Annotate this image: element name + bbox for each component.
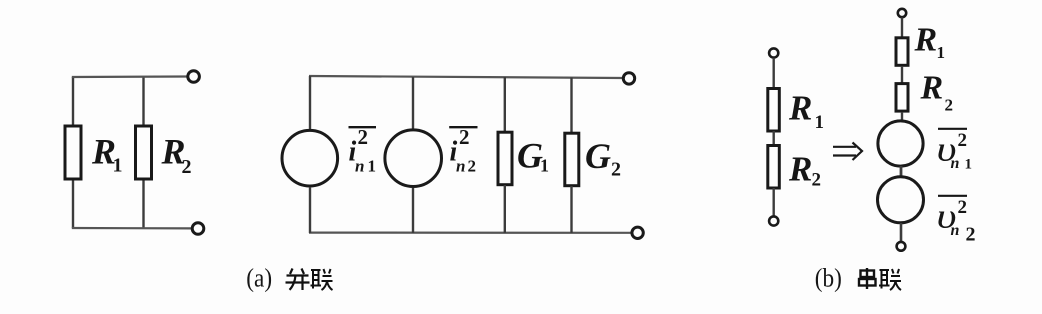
svg-text:2: 2 (966, 224, 976, 246)
terminal: bottom output (192, 223, 204, 235)
svg-text:1: 1 (965, 157, 973, 173)
svg-text:1: 1 (540, 156, 549, 176)
wire: bottom horizontal bus (309, 232, 631, 234)
caption glyph 串 (hand drawn) (859, 268, 876, 289)
resistor R2 (136, 126, 152, 179)
wire: lead to R1 (901, 17, 903, 37)
conductance G2 (resistor box) (565, 133, 579, 186)
label i_n1^2 with overbar (349, 126, 377, 128)
wire: lead to bottom terminal (773, 188, 775, 217)
label v_n1^2 with overbar (938, 128, 967, 130)
svg-text:R: R (920, 70, 944, 107)
svg-text:2: 2 (459, 125, 470, 149)
wire: between source 1 and source 2 (900, 166, 903, 177)
resistor R1 (right chain) (896, 38, 908, 66)
svg-text:2: 2 (182, 156, 192, 178)
svg-text:n: n (456, 157, 465, 176)
wire: between R2 and source 1 (901, 112, 903, 121)
caption glyph 联 (hand drawn, second) (879, 269, 901, 290)
wire: source 2 top lead (412, 77, 414, 129)
wire: G2 top lead (570, 78, 572, 134)
svg-text:1: 1 (113, 155, 123, 177)
caption glyph 联 (hand drawn) (311, 269, 333, 290)
arrow (double line implies) (833, 143, 862, 161)
wire: source 1 top lead (309, 76, 311, 130)
svg-text:1: 1 (815, 112, 825, 133)
svg-text:n: n (951, 155, 960, 172)
wire: top horizontal (72, 75, 188, 78)
svg-text:2: 2 (468, 157, 477, 176)
wire: second bottom vertical (below R2) (142, 179, 144, 228)
svg-text:2: 2 (945, 96, 954, 115)
wire: between R1 and R2 (773, 131, 775, 145)
caption glyph 并 (hand drawn) (286, 269, 310, 291)
wire: left bottom vertical (below R1) (72, 179, 74, 228)
wire: lead to R1 (773, 58, 775, 88)
conductance G1 (resistor box) (498, 132, 512, 185)
svg-text:1: 1 (368, 157, 377, 176)
caption (b) (815, 264, 842, 293)
svg-text:2: 2 (812, 170, 822, 191)
svg-text:n: n (355, 157, 364, 176)
svg-text:1: 1 (937, 43, 946, 62)
svg-text:n: n (951, 222, 960, 239)
wire: source 2 bottom lead (412, 188, 414, 233)
resistor R1 (left chain) (768, 89, 780, 132)
terminal: top output (623, 73, 634, 84)
resistor R1 (65, 126, 81, 179)
svg-text:2: 2 (958, 197, 968, 218)
wire: between R1 and R2 (901, 66, 903, 83)
wire: G1 top lead (504, 77, 506, 132)
svg-text:R: R (788, 88, 812, 127)
resistor R2 (right chain) (896, 84, 908, 112)
terminal: top output (188, 71, 200, 83)
terminal: bottom of right chain (897, 242, 906, 251)
svg-text:2: 2 (958, 130, 968, 151)
wire: source 1 bottom lead (309, 187, 311, 233)
caption (a) (246, 264, 272, 293)
terminal: top of right chain (898, 9, 906, 17)
svg-text:(a): (a) (246, 264, 272, 293)
terminal: bottom of left chain (769, 216, 778, 225)
wire: lead to bottom terminal (900, 223, 903, 242)
wire: G2 bottom lead (570, 186, 572, 233)
svg-text:2: 2 (358, 125, 369, 149)
current source circle 2 (385, 130, 442, 187)
svg-text:R: R (914, 21, 938, 58)
svg-text:(b): (b) (815, 264, 842, 293)
terminal: bottom output (632, 227, 643, 238)
voltage source circle 2 (878, 177, 924, 223)
wire: second top vertical (above R2) (142, 77, 144, 126)
terminal: top of left chain (769, 48, 778, 57)
wire: left top vertical (above R1) (72, 77, 74, 126)
svg-text:2: 2 (611, 159, 621, 181)
current source circle 1 (282, 130, 338, 186)
svg-text:R: R (788, 149, 812, 188)
label i_n2^2 with overbar (449, 126, 477, 128)
resistor R2 (left chain) (768, 146, 780, 189)
svg-text:G: G (585, 136, 611, 176)
voltage source circle 1 (878, 121, 923, 166)
wire: top horizontal bus (309, 76, 623, 78)
wire: G1 bottom lead (504, 185, 506, 233)
label v_n2^2 with overbar (938, 195, 967, 197)
wire: bottom horizontal (72, 227, 192, 230)
